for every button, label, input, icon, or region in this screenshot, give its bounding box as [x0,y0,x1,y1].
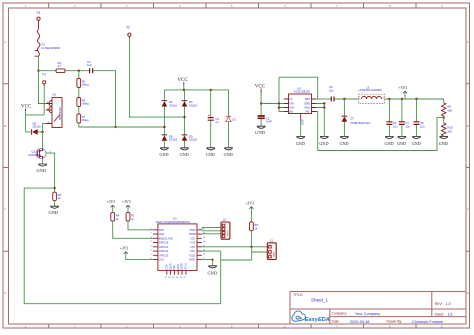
wire rail to D4 [163,90,165,101]
node junction C6 [388,98,390,100]
wire IO2 row to loop [202,250,221,252]
ground under D7 [340,122,349,146]
node junction under fuse [37,70,39,72]
module U1 ESP-12F [151,217,207,279]
svg-text:D: D [5,291,7,295]
svg-text:B: B [5,124,7,128]
svg-text:FDN357N: FDN357N [29,153,41,157]
VCC flag left [21,105,32,112]
node junction rail C3 [210,89,212,91]
svg-text:GND: GND [296,141,305,146]
svg-text:D1: D1 [232,117,236,121]
svg-text:GND: GND [340,141,349,146]
svg-text:GND: GND [255,130,266,135]
wire T1 down [43,86,45,115]
svg-text:IO4: IO4 [191,241,196,245]
wire R7 bottom to bridge node AC1 [79,123,165,127]
resistor R10 [442,118,453,136]
node junction FB divider [443,116,445,118]
svg-text:EN(CH_PD): EN(CH_PD) [159,236,173,240]
node junction VIN2 [278,106,280,108]
node junction at 115.5,127 [114,126,116,128]
svg-text:Drawn By:: Drawn By: [387,320,403,324]
svg-text:GPIO13: GPIO13 [159,253,169,257]
node junction GND2 [323,106,325,108]
wire VIN riser [279,77,284,111]
svg-text:MISO: MISO [169,263,172,269]
svg-text:GND: GND [302,119,305,125]
wire T2 down to bridge node AC2 [129,39,184,118]
node junction gate loop [53,187,55,189]
VCC flag bridge [178,78,189,90]
wire L3 to output rail [385,98,444,100]
svg-text:+3V3: +3V3 [399,86,408,90]
svg-text:FB: FB [306,110,310,114]
node junction C7 [401,98,403,100]
svg-text:B: B [467,124,469,128]
wire FB feedback loop [316,112,444,151]
wire IO0 row to J1 [202,246,267,248]
diode D5 [182,100,198,107]
wire R8 to IO0 net [250,231,252,247]
capacitor C8 [412,99,425,146]
wire RXD0 to J2 [202,231,221,234]
capacitor C6 [385,99,398,146]
node junction D7 tap [343,98,345,100]
node junction AC1 [163,126,165,128]
wire loop to left [24,188,221,304]
svg-text:IO15: IO15 [190,253,196,257]
ground under Q1 [37,159,47,173]
svg-text:2020-09-28: 2020-09-28 [350,320,369,324]
wire node down to Q1 drain [42,132,44,148]
svg-text:SRD-05VDC: SRD-05VDC [60,107,62,120]
node junction rail VCC [183,89,185,91]
diode D9 [182,134,198,141]
wire junction down to R5 [78,71,80,79]
ground under C3 [206,121,215,157]
+3V3 flag R8 [245,202,254,222]
terminal T3 [36,11,40,29]
svg-text:D: D [467,291,469,295]
wire R6-R7 [78,107,80,115]
svg-text:4.7: 4.7 [58,64,62,68]
header J1 [267,238,276,259]
svg-text:GND: GND [319,141,328,146]
wire VCC down to C1 [260,93,262,115]
wire C4 right going down to bridge [93,71,115,127]
svg-text:K2: K2 [53,93,57,97]
ground under D9 [180,141,189,157]
svg-text:IO9: IO9 [173,265,176,270]
svg-text:1.0: 1.0 [446,302,451,306]
resistor R6 [77,98,89,107]
svg-text:GPIO: GPIO [227,230,229,236]
wire R1 to RST pin [128,221,153,230]
svg-text:EasyEDA: EasyEDA [305,317,330,323]
svg-text:Company:: Company: [332,312,348,316]
wire R4 to EN pin [113,221,153,238]
svg-text:ADC: ADC [159,232,165,236]
svg-text:1uF: 1uF [87,63,92,67]
capacitor C7 [397,99,410,146]
ground under R2 [49,201,59,216]
svg-text:1Meg: 1Meg [82,83,89,87]
svg-text:+3V3: +3V3 [120,247,129,251]
title block [290,292,466,325]
svg-text:ADO: ADO [273,251,276,256]
+3V3 flag buck [399,86,408,99]
svg-text:C: C [5,207,7,211]
svg-text:GND: GND [189,258,195,262]
wire R3 to C4 [65,70,90,72]
transistor Q1 [29,148,52,159]
ground under D1 [224,122,233,157]
svg-text:1Meg: 1Meg [82,118,89,122]
svg-text:Christoph Forstner: Christoph Forstner [412,320,444,324]
+3V3 flag R1 [122,200,131,212]
wire Q1 gate to loop [46,153,55,192]
svg-text:IO10: IO10 [177,264,180,270]
terminal T2 [126,26,131,39]
svg-text:J2: J2 [223,217,227,221]
ground under R10 [439,136,448,146]
svg-text:AOZ1282DI: AOZ1282DI [294,89,310,93]
svg-text:10u: 10u [405,124,410,128]
wire C5 to L3 [334,98,358,100]
svg-text:FUSEX20MM: FUSEX20MM [42,46,61,50]
wire VCC to D6 [26,131,32,133]
+3V3 flag VCC pin [120,247,153,260]
svg-text:EN: EN [289,110,293,114]
resistor R1 [126,212,135,221]
resistor R9 [442,99,453,116]
svg-text:A: A [467,40,469,44]
svg-text:C: C [467,207,469,211]
svg-text:T3: T3 [36,11,40,15]
inductor L3 [359,86,385,104]
EasyEDA logo [292,311,330,323]
wire D6 to node [38,131,43,133]
wire VCC to T1 vertical [26,114,45,116]
resistor R7 [77,114,89,123]
wire bridge VCC rail [164,89,228,91]
capacitor C3 [208,90,220,124]
wire junction to R3 [39,70,57,72]
svg-text:GND: GND [412,141,421,146]
node junction R3-C4 [78,70,80,72]
svg-text:R1: R1 [131,214,135,218]
ground under U3 pad [296,121,305,146]
svg-text:SS110: SS110 [189,103,198,107]
wire BST to C5 [316,98,331,100]
wire VCC to VIN [261,103,279,105]
svg-text:GND: GND [49,210,59,215]
svg-text:SS110: SS110 [169,138,178,142]
diode D4 [162,100,178,107]
svg-text:10u: 10u [329,88,334,92]
svg-text:LX: LX [289,97,292,101]
wire ESP GND pin [202,260,213,266]
regulator U3 [284,87,316,126]
wire VCC down [25,111,27,132]
VCC flag buck [255,85,266,94]
svg-text:GND: GND [37,168,47,173]
svg-text:Your Company: Your Company [355,312,380,316]
ground under ESP [208,266,218,276]
svg-text:TXD0: TXD0 [189,228,196,232]
resistor R3 [56,61,65,73]
svg-text:Date:: Date: [332,320,340,324]
+3V3 flag R4 [107,200,116,212]
svg-text:REV:: REV: [435,302,443,306]
ground under D8 [160,141,169,157]
svg-text:BST: BST [305,97,311,101]
svg-text:VCC: VCC [178,78,189,83]
terminal T1 [42,73,46,87]
wire TXD0 to J2 [202,228,221,230]
svg-text:RXD0: RXD0 [189,232,196,236]
node junction AC2 [183,116,185,118]
wire IO2 branch to J1 [221,247,268,260]
svg-text:CAP: CAP [266,120,272,124]
svg-text:IO2: IO2 [191,249,196,253]
resistor R2 [53,192,62,201]
wire D4 to D8 [163,107,165,135]
svg-text:GND: GND [439,141,448,146]
svg-text:10u: 10u [420,124,425,128]
diode D1 [226,90,237,122]
svg-text:1Meg: 1Meg [82,102,89,106]
svg-text:GPIO12: GPIO12 [159,249,169,253]
node junction D6/Q1 [41,131,43,133]
svg-text:VIN: VIN [289,102,294,106]
svg-text:T2: T2 [126,26,130,30]
svg-text:GND: GND [206,152,215,157]
svg-text:LPS4018-223MRC: LPS4018-223MRC [359,88,382,92]
svg-text:GND: GND [180,152,189,157]
node junction VIN1 [278,102,280,104]
resistor R8 [250,222,259,231]
node junction R8/IO0 [250,246,252,248]
node junction VCC/VIN [260,102,262,104]
node junction C8 [415,98,417,100]
svg-text:1u: 1u [215,120,219,124]
capacitor C4 [87,60,93,73]
svg-text:GND: GND [304,106,310,110]
svg-text:A: A [5,40,7,44]
svg-text:2k2: 2k2 [447,130,452,134]
svg-text:ESP-12F(ESP8266MOD): ESP-12F(ESP8266MOD) [156,220,190,224]
fuse F2 [35,30,61,57]
wire D5 to D9 [184,107,186,135]
resistor R5 [77,79,89,88]
svg-text:+3V3: +3V3 [122,200,131,204]
wire junction to relay coil pin [39,71,47,104]
svg-text:R8: R8 [254,223,258,227]
wire fuse to junction [38,56,40,71]
svg-text:TITLE:: TITLE: [293,293,303,297]
node junction GND pin [212,259,214,261]
svg-text:+3V3: +3V3 [107,200,116,204]
svg-text:GPIO14: GPIO14 [159,245,169,249]
resistor R4 [111,212,120,221]
diode D6 [32,122,42,135]
svg-text:RST: RST [159,228,165,232]
svg-text:T1: T1 [42,73,46,77]
ground under C1 [255,119,266,135]
wire R5-R6 [78,88,80,98]
svg-text:GND: GND [397,141,406,146]
svg-text:SCLK: SCLK [185,263,188,270]
svg-text:VCC: VCC [159,258,165,262]
capacitor C5 [329,85,334,102]
svg-text:MOSI: MOSI [181,263,184,269]
wire U3 GND pins [316,104,324,137]
diode D8 [162,134,178,141]
svg-text:VCC: VCC [255,85,266,90]
svg-text:SS110: SS110 [33,125,42,129]
svg-text:GPIO16: GPIO16 [159,241,169,245]
svg-text:GND: GND [224,152,233,157]
svg-text:VCC: VCC [21,105,32,110]
node junction GND1 [323,102,325,104]
svg-text:SS110: SS110 [189,138,198,142]
svg-text:10u: 10u [393,124,398,128]
svg-text:Sheet:: Sheet: [435,313,445,317]
svg-text:6k8: 6k8 [447,109,452,113]
svg-text:SS110: SS110 [169,103,178,107]
svg-text:J1: J1 [270,238,274,242]
svg-text:GND: GND [160,152,169,157]
relay K2 [46,93,62,128]
svg-text:VIN: VIN [289,106,294,110]
svg-text:PMEG6010CEJ: PMEG6010CEJ [351,121,371,125]
wire BST top rail [279,77,318,99]
svg-text:IO0: IO0 [191,245,196,249]
wire rail to D5 [184,90,186,101]
header J2 [221,217,230,239]
svg-text:GND: GND [385,141,394,146]
wire relay pin1 to D6 node [43,124,46,132]
capacitor C1 polarized [258,116,272,124]
svg-text:Sheet_1: Sheet_1 [311,298,329,303]
svg-text:1/1: 1/1 [448,313,453,317]
svg-text:GND: GND [208,271,218,276]
svg-text:IO5: IO5 [191,236,196,240]
svg-text:R4: R4 [116,214,120,218]
svg-text:CS0: CS0 [166,264,169,269]
svg-text:GND: GND [304,102,310,106]
svg-text:+3V3: +3V3 [245,202,254,206]
diode D7 [342,99,371,125]
ground under U3 GND pins [319,136,328,145]
